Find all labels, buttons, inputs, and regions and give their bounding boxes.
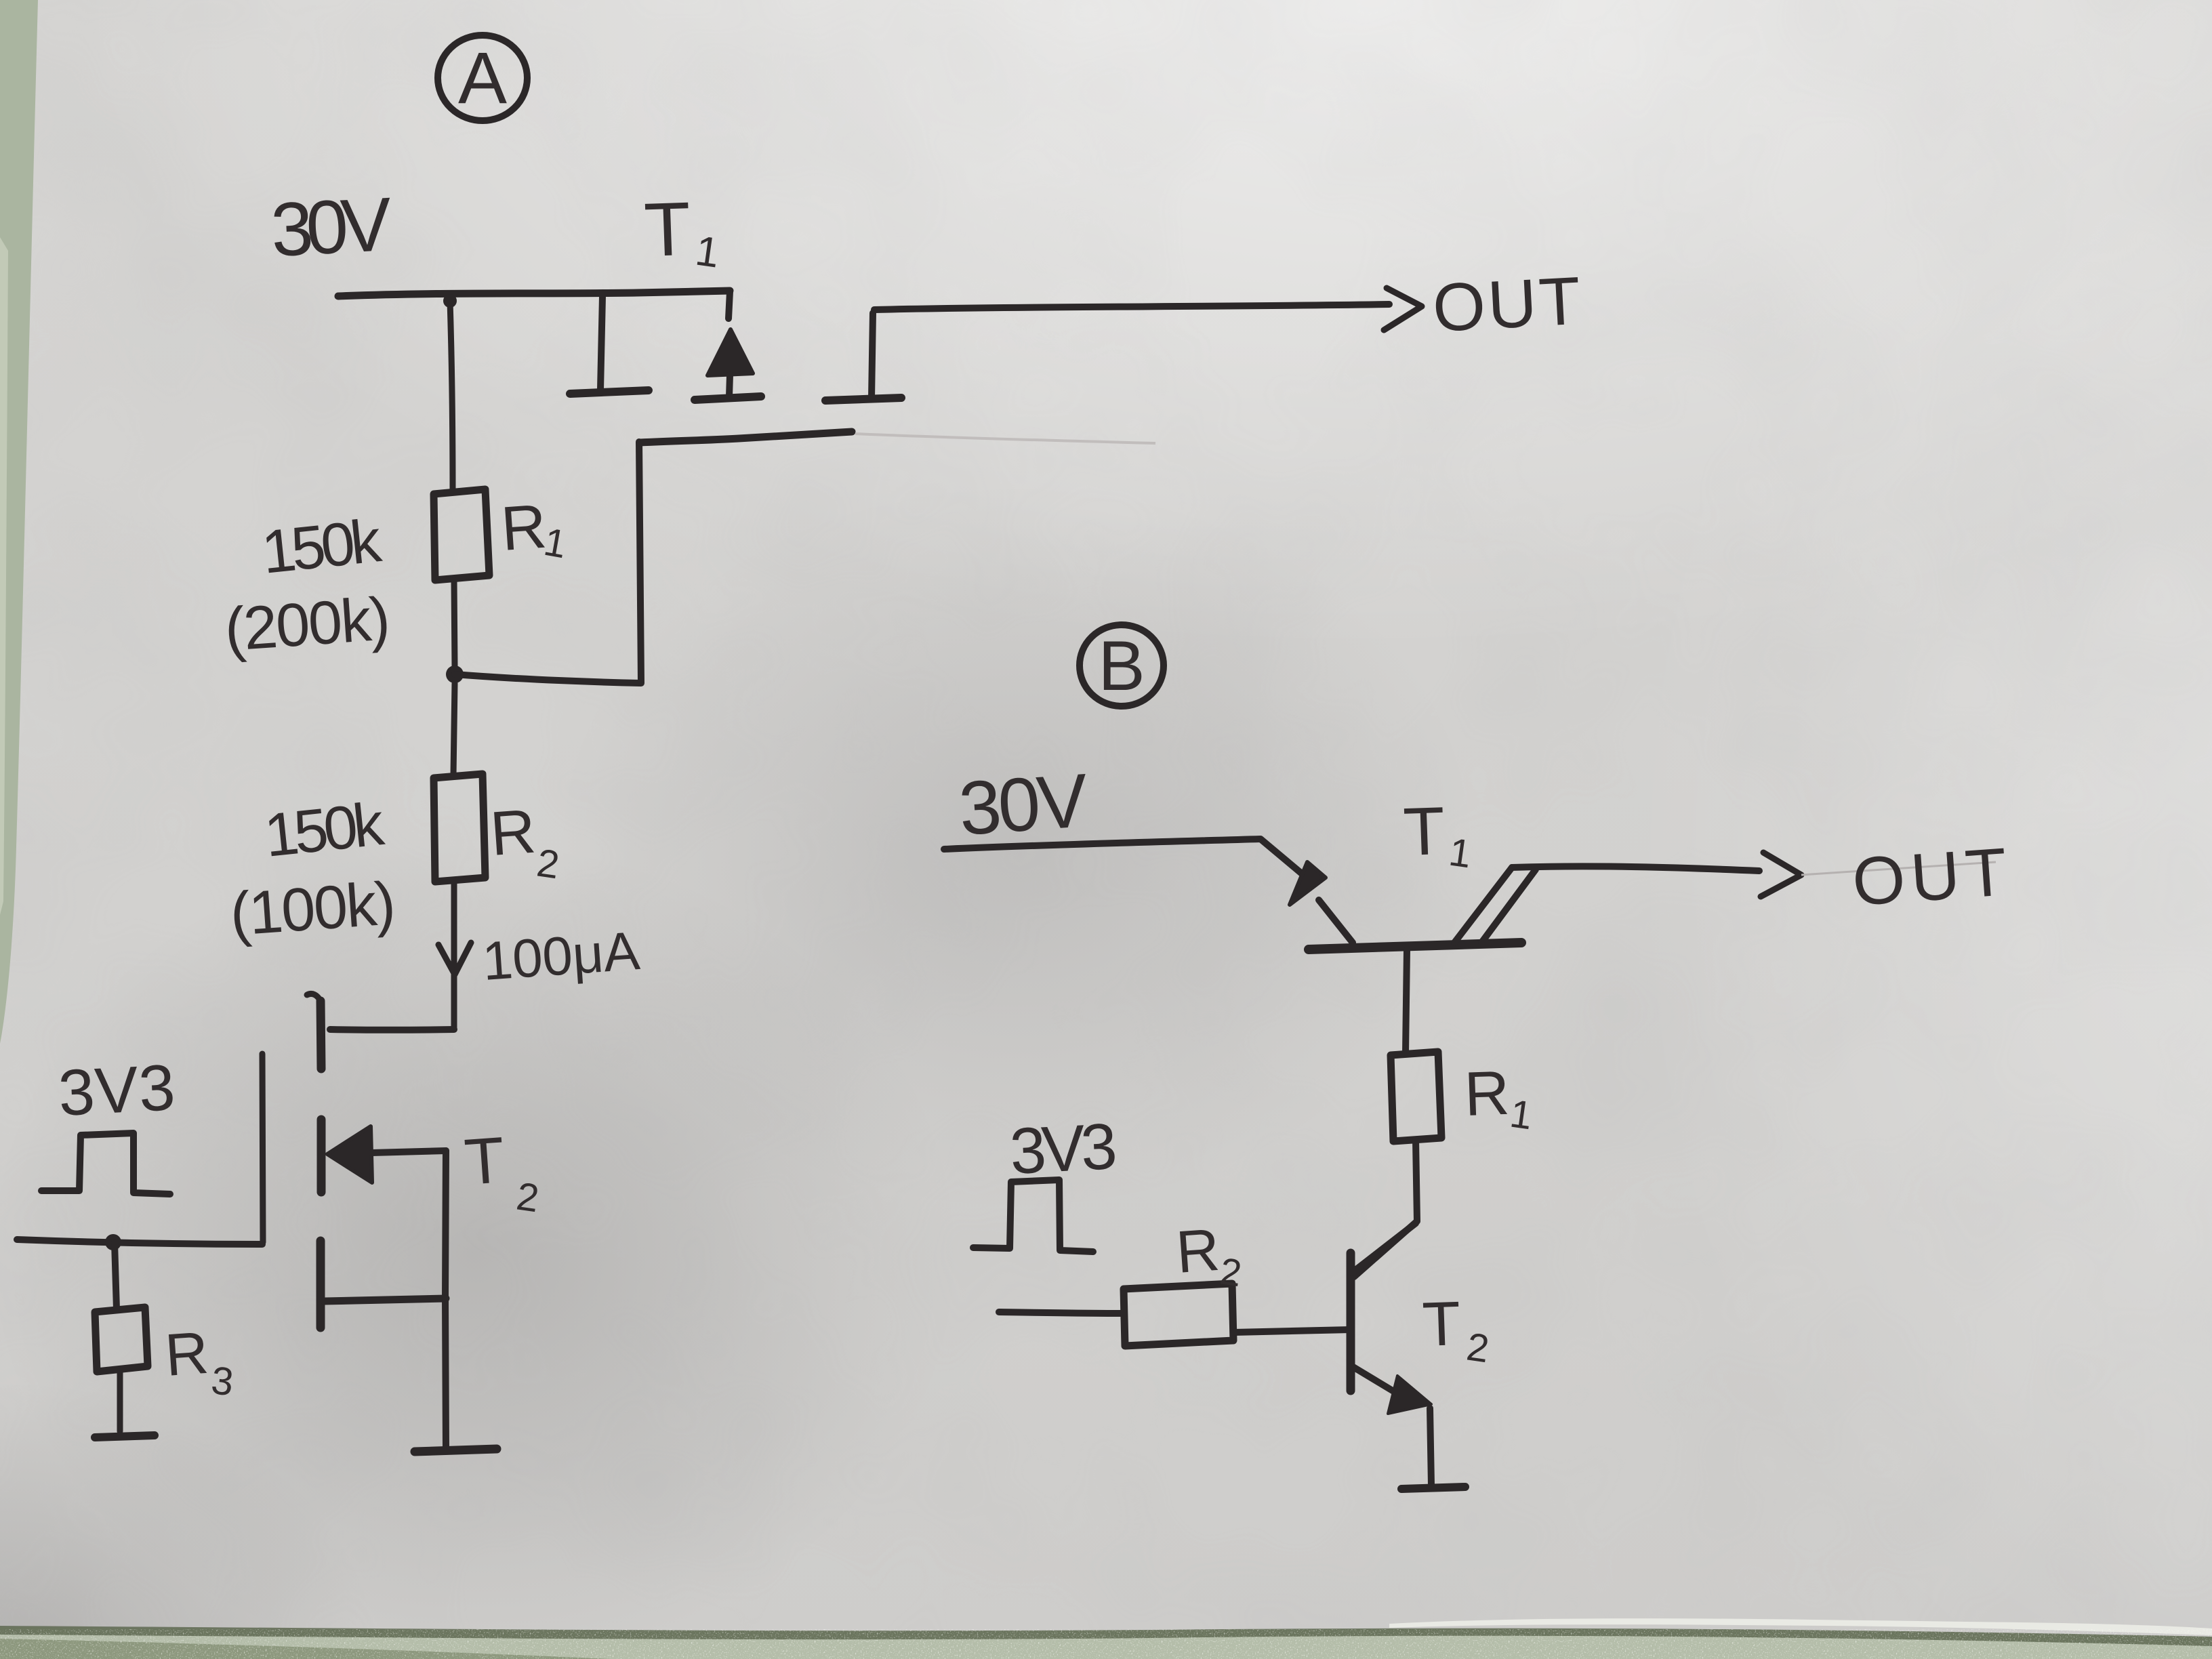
wire collector to OUT (B) bbox=[1512, 866, 1759, 871]
svg-text:OUT: OUT bbox=[1431, 262, 1589, 346]
wire OUT (A) bbox=[874, 304, 1389, 310]
svg-text:30V: 30V bbox=[269, 182, 394, 272]
svg-text:R: R bbox=[488, 797, 537, 869]
wire R1 to T2 collector bbox=[1354, 1140, 1417, 1277]
wire 30V rail (A) bbox=[338, 291, 730, 296]
label R3 bbox=[163, 1319, 235, 1405]
table surface left strip bbox=[0, 0, 38, 1044]
svg-text:150k: 150k bbox=[262, 790, 388, 870]
label R1 bbox=[499, 492, 570, 567]
resistor R2 (B) bbox=[1124, 1284, 1233, 1346]
resistor R3 bbox=[95, 1307, 148, 1372]
label R1 (B) bbox=[1463, 1059, 1535, 1139]
wire R2 to T2 base bbox=[1234, 1330, 1351, 1332]
label T1 (B) bbox=[1402, 793, 1474, 876]
arrowhead OUT (A) bbox=[1384, 288, 1422, 330]
wire 3V3 to R2 (B) bbox=[999, 1312, 1122, 1313]
wire R1 to node bbox=[454, 580, 455, 667]
wire R3 to ground bbox=[117, 1370, 123, 1431]
transistor T2 (NMOS) bbox=[262, 994, 454, 1448]
svg-text:T: T bbox=[462, 1124, 507, 1199]
svg-text:OUT: OUT bbox=[1850, 833, 2018, 920]
label A (circled) bbox=[438, 35, 527, 121]
ground (T2 emitter, B) bbox=[1401, 1487, 1465, 1489]
current arrowhead 100uA bbox=[438, 943, 471, 975]
svg-text:R: R bbox=[499, 492, 548, 564]
svg-text:R: R bbox=[1174, 1216, 1221, 1286]
label T2 (A) bbox=[462, 1124, 541, 1221]
transistor T2 (NPN) bbox=[1351, 1223, 1431, 1486]
svg-text:R: R bbox=[1463, 1059, 1511, 1129]
faint pen scratch near T1 gate bbox=[855, 434, 1155, 443]
pulse input 3V3 (B) bbox=[973, 1180, 1093, 1252]
resistor R2 bbox=[434, 774, 485, 882]
label R2 bbox=[488, 797, 562, 888]
wire 30V supply (B) bbox=[944, 839, 1303, 874]
svg-text:3V3: 3V3 bbox=[56, 1051, 176, 1130]
svg-text:30V: 30V bbox=[956, 758, 1091, 851]
junction node R1/R2/gate dot bbox=[446, 665, 464, 683]
resistor R1 bbox=[434, 489, 489, 580]
svg-text:T: T bbox=[1421, 1289, 1462, 1359]
wire rail down to R1 bbox=[450, 301, 453, 492]
svg-text:100μA: 100μA bbox=[480, 920, 642, 991]
ground (T2 source) bbox=[415, 1449, 497, 1452]
svg-text:3V3: 3V3 bbox=[1008, 1110, 1118, 1188]
svg-text:150k: 150k bbox=[259, 507, 385, 587]
junction dot 3V3/R3 bbox=[105, 1234, 121, 1250]
label R2 (B) bbox=[1174, 1216, 1244, 1294]
faint stray pen line near OUT (B) bbox=[1801, 862, 1996, 875]
label T1 (A) bbox=[642, 186, 722, 277]
svg-text:R: R bbox=[163, 1319, 210, 1389]
wire 3V3 to T2 gate bbox=[17, 1240, 262, 1244]
transistor T1 (PNP) bbox=[1290, 862, 1536, 1053]
wire junction to R3 bbox=[115, 1242, 117, 1309]
wire node to R2 bbox=[453, 683, 455, 775]
label B (circled) bbox=[1080, 625, 1164, 706]
svg-text:T: T bbox=[1402, 793, 1446, 870]
svg-text:T: T bbox=[642, 186, 692, 272]
table surface bottom strip bbox=[0, 1618, 2212, 1659]
ground (R3) bbox=[95, 1435, 155, 1437]
label T2 (B) bbox=[1421, 1289, 1492, 1371]
svg-text:A: A bbox=[458, 37, 507, 119]
wire node to T1 gate (L shape) bbox=[455, 442, 641, 683]
svg-text:(100k): (100k) bbox=[228, 869, 397, 949]
junction dot rail/R1 bbox=[443, 294, 457, 308]
svg-text:3: 3 bbox=[209, 1358, 236, 1404]
transistor T1 (PMOS) bbox=[570, 291, 901, 443]
arrowhead OUT (B) bbox=[1761, 853, 1801, 897]
svg-text:(200k): (200k) bbox=[222, 585, 392, 664]
wire R2 down with current arrow bbox=[451, 882, 457, 1029]
svg-text:B: B bbox=[1098, 627, 1145, 705]
pulse input 3V3 (A) bbox=[41, 1133, 170, 1194]
resistor R1 (B) bbox=[1391, 1052, 1441, 1141]
